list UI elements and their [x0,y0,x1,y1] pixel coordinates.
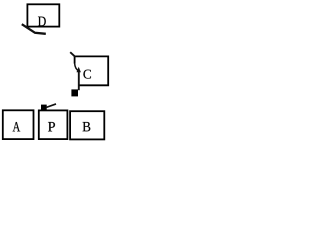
node box D [27,4,59,26]
wire: tick from P square up-right [46,104,56,108]
wire: bent pointer line below D [22,24,46,34]
wire: tick into C top-left corner [70,52,75,57]
background [0,0,112,142]
node box P [39,110,68,139]
pointer square above P [41,105,47,111]
arrowhead pointing up inside C [77,67,81,72]
node box C (open left side below notch) [75,56,109,85]
wire: vertical shaft from square B up into C [78,72,80,90]
node box B [70,111,104,139]
wire: curve from C left edge down to shaft [75,63,79,71]
node box A [3,110,34,139]
pointer square above B [71,89,78,96]
